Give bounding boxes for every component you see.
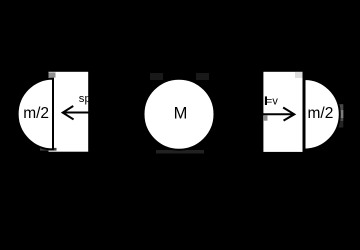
svg-text:=v: =v xyxy=(266,96,278,108)
svg-text:m/2: m/2 xyxy=(23,105,49,122)
smudge artifact under ball xyxy=(156,150,204,154)
svg-text:M: M xyxy=(174,105,188,123)
velocity arrow (left, pointing left) xyxy=(63,107,89,119)
hemisphere mass m/2 (left) xyxy=(18,79,53,150)
gray handle artifact top-left of left panel xyxy=(49,72,56,77)
force arrow (right, pointing right) xyxy=(263,108,294,120)
faint artifact squares above ball xyxy=(150,73,163,80)
light gray artifact top-right of right panel xyxy=(295,72,303,78)
svg-text:sp: sp xyxy=(79,93,91,105)
gray handle artifact left edge of right panel xyxy=(264,115,268,120)
gray smudge artifact bottom-left of left panel xyxy=(40,148,57,151)
ball mass M xyxy=(144,79,215,150)
right white panel xyxy=(263,72,302,152)
hemisphere mass m/2 (right) xyxy=(305,79,340,150)
svg-text:m/2: m/2 xyxy=(308,105,334,122)
left white panel xyxy=(49,72,89,152)
clipped letter stem before =v xyxy=(265,96,267,105)
gray block artifact right of right hemisphere xyxy=(339,104,344,121)
